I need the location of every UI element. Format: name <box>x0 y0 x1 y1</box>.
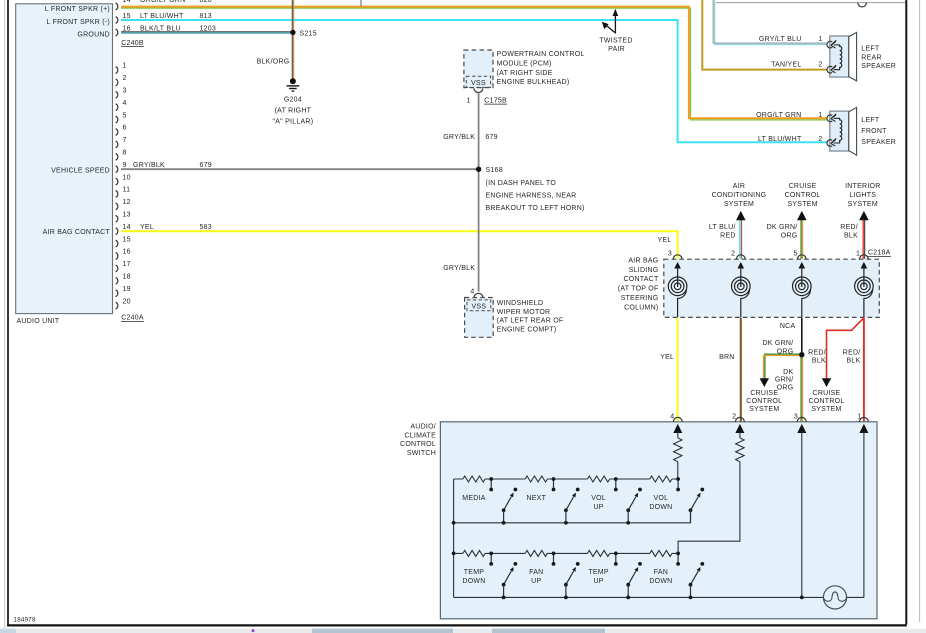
svg-text:CRUISE: CRUISE <box>750 390 778 397</box>
wiper pin arc <box>474 293 483 297</box>
svg-text:1: 1 <box>818 36 822 43</box>
wire RED/BLK branch to cruise control <box>827 318 864 379</box>
top-right cut pin arc <box>858 3 867 7</box>
svg-text:(IN DASH PANEL TO: (IN DASH PANEL TO <box>486 180 557 187</box>
svg-text:FAN: FAN <box>654 569 668 576</box>
bottom scrollbar corner block <box>0 629 16 633</box>
row2 bottom rail <box>454 596 864 598</box>
wire RED/BLK (pin1 up to interior lights system) <box>862 220 864 259</box>
svg-text:L FRONT SPKR (-): L FRONT SPKR (-) <box>46 19 110 26</box>
svg-text:ORG/LT GRN: ORG/LT GRN <box>140 0 185 4</box>
svg-text:RED/: RED/ <box>808 350 826 357</box>
wire BLK/LT BLU (pin16 to S215) dark stripe <box>121 31 292 33</box>
svg-text:POWERTRAIN CONTROL: POWERTRAIN CONTROL <box>497 51 585 58</box>
illumination lamp <box>823 586 846 609</box>
svg-text:(AT RIGHT: (AT RIGHT <box>275 107 312 114</box>
left front speaker pin1 arc <box>827 115 832 122</box>
svg-text:S215: S215 <box>300 30 317 37</box>
svg-text:C175B: C175B <box>484 97 507 104</box>
svg-text:CLIMATE: CLIMATE <box>404 432 436 439</box>
svg-text:DK GRN/: DK GRN/ <box>762 340 793 347</box>
pin2 wire <box>739 431 741 438</box>
svg-text:LEFT: LEFT <box>861 117 880 124</box>
svg-text:15: 15 <box>123 13 131 20</box>
left vertical bus <box>453 479 455 597</box>
svg-text:NEXT: NEXT <box>526 495 546 502</box>
resistor FAN UP <box>525 550 547 556</box>
wire GRY/LT BLU light blue stripe <box>715 0 828 45</box>
svg-text:CRUISE: CRUISE <box>789 183 817 190</box>
svg-text:ORG: ORG <box>777 385 794 392</box>
svg-text:WIPER MOTOR: WIPER MOTOR <box>497 309 551 316</box>
wire BLK/ORG orange stripe <box>293 0 295 80</box>
svg-text:GROUND: GROUND <box>77 31 110 38</box>
svg-text:SYSTEM: SYSTEM <box>811 406 841 413</box>
svg-text:CRUISE: CRUISE <box>813 390 841 397</box>
svg-text:AUDIO/: AUDIO/ <box>410 423 436 430</box>
svg-text:VSS: VSS <box>471 80 486 87</box>
svg-text:CONTACT: CONTACT <box>623 276 659 283</box>
switch FAN DOWN <box>676 553 704 597</box>
page bottom black border <box>7 624 907 626</box>
sliding contact spiral 4 <box>855 262 874 317</box>
svg-text:LT BLU/WHT: LT BLU/WHT <box>758 136 802 143</box>
svg-text:RED: RED <box>720 233 736 240</box>
svg-text:TEMP: TEMP <box>588 569 609 576</box>
left front speaker cone <box>849 107 857 155</box>
svg-text:(AT RIGHT SIDE: (AT RIGHT SIDE <box>497 70 553 77</box>
svg-text:G204: G204 <box>284 96 302 103</box>
svg-text:"A" PILLAR): "A" PILLAR) <box>273 119 314 126</box>
left rear speaker pin2 arc <box>827 66 832 73</box>
resistor VOL UP <box>588 476 610 482</box>
svg-text:2: 2 <box>731 250 735 257</box>
svg-text:CONTROL: CONTROL <box>746 398 782 405</box>
svg-text:GRN/: GRN/ <box>775 377 794 384</box>
svg-text:1: 1 <box>818 112 822 119</box>
ground G204 symbol <box>290 78 296 84</box>
svg-text:ORG/LT GRN: ORG/LT GRN <box>756 112 801 119</box>
splice S168 <box>476 167 481 172</box>
cut-off wire stub at top <box>360 0 362 6</box>
svg-text:9: 9 <box>123 162 127 169</box>
svg-text:TEMP: TEMP <box>464 569 485 576</box>
left rear speaker pin1 arrow <box>831 40 840 48</box>
svg-text:VOL: VOL <box>654 495 669 502</box>
svg-text:TWISTED: TWISTED <box>599 37 632 44</box>
svg-text:COLUMN): COLUMN) <box>624 304 658 311</box>
wire GRY/BLK (pin9 audio to S168) <box>121 168 479 170</box>
svg-text:10: 10 <box>123 174 131 181</box>
svg-text:13: 13 <box>123 212 131 219</box>
air bag top pin arcs <box>673 255 682 259</box>
left front speaker pin2 arrow <box>831 138 840 146</box>
left front speaker pin1 arrow <box>831 114 840 122</box>
svg-text:FRONT: FRONT <box>861 128 887 135</box>
svg-text:16: 16 <box>123 249 131 256</box>
svg-text:YEL: YEL <box>140 224 154 231</box>
audio unit box <box>16 4 113 314</box>
audio/climate control switch box <box>440 422 877 619</box>
switch box top pin arcs <box>673 417 682 421</box>
svg-text:1: 1 <box>467 97 471 104</box>
svg-text:BLK/LT BLU: BLK/LT BLU <box>140 25 181 32</box>
svg-text:4: 4 <box>123 100 127 107</box>
wire ORG/LT GRN green stripe (pin14 to left front speaker pin1) <box>121 8 828 120</box>
svg-text:8: 8 <box>123 150 127 157</box>
svg-text:NCA: NCA <box>780 323 796 330</box>
svg-text:SPEAKER: SPEAKER <box>861 139 896 146</box>
svg-text:3: 3 <box>794 413 798 420</box>
svg-text:ENGINE COMPT): ENGINE COMPT) <box>497 326 557 333</box>
svg-text:TAN/YEL: TAN/YEL <box>771 61 801 68</box>
PCM VSS sub-box <box>466 76 490 87</box>
svg-text:GRY/BLK: GRY/BLK <box>443 134 475 141</box>
bottom scrollbar segment 2 <box>492 629 605 633</box>
svg-text:4: 4 <box>470 289 474 296</box>
svg-text:11: 11 <box>123 187 131 194</box>
left rear speaker cone <box>849 32 857 81</box>
left rear speaker pin1 arc <box>827 41 832 48</box>
wire BLK/LT BLU teal stripe <box>121 32 292 34</box>
svg-text:1203: 1203 <box>200 25 217 32</box>
svg-text:S168: S168 <box>486 167 503 174</box>
svg-text:SPEAKER: SPEAKER <box>861 63 896 70</box>
svg-text:MEDIA: MEDIA <box>462 495 486 502</box>
left front speaker body <box>830 111 849 151</box>
svg-text:6: 6 <box>123 125 127 132</box>
left front speaker coil <box>840 118 842 143</box>
top-right cut box bottom edge <box>716 2 905 4</box>
bottom scrollbar track <box>0 629 926 633</box>
svg-text:19: 19 <box>123 286 131 293</box>
svg-text:UP: UP <box>531 578 541 585</box>
svg-text:GRY/BLK: GRY/BLK <box>133 162 165 169</box>
resistor FAN DOWN <box>650 550 672 556</box>
left rear speaker body <box>830 36 849 77</box>
svg-text:RED/: RED/ <box>840 224 858 231</box>
wire DK GRN/ORG branch to cruise control <box>765 354 802 379</box>
svg-text:(AT LEFT REAR OF: (AT LEFT REAR OF <box>497 318 564 325</box>
svg-text:STEERING: STEERING <box>621 295 659 302</box>
row2 top rail <box>454 552 678 554</box>
pin4 wire and resistor <box>677 431 679 438</box>
page right grey line <box>919 0 921 622</box>
switch VOL UP <box>614 479 642 523</box>
wire ORG/LT GRN orange run <box>121 7 828 119</box>
svg-text:C218A: C218A <box>868 250 891 257</box>
svg-text:GRY/BLK: GRY/BLK <box>443 265 475 272</box>
svg-text:2: 2 <box>123 75 127 82</box>
svg-text:MODULE (PCM): MODULE (PCM) <box>497 61 552 68</box>
svg-text:CONTROL: CONTROL <box>809 398 845 405</box>
row1 top rail <box>454 478 678 480</box>
svg-text:CONDITIONING: CONDITIONING <box>712 192 767 199</box>
twisted pair arrow vertical <box>614 13 616 34</box>
windshield wiper motor box <box>465 298 494 338</box>
junction dot DK GRN/ORG <box>799 352 804 357</box>
svg-text:DOWN: DOWN <box>462 578 485 585</box>
left rear speaker coil <box>840 45 842 70</box>
pin4 entry arrow <box>673 424 682 433</box>
svg-text:C240A: C240A <box>121 315 144 322</box>
switch MEDIA <box>489 479 517 523</box>
sliding contact spiral 1 <box>668 262 687 317</box>
svg-text:C240B: C240B <box>121 40 144 47</box>
bottom scrollbar segment 1 <box>312 629 453 633</box>
svg-text:SYSTEM: SYSTEM <box>848 201 878 208</box>
svg-text:AIR: AIR <box>733 183 745 190</box>
svg-text:BLK: BLK <box>844 233 858 240</box>
svg-text:820: 820 <box>200 0 212 4</box>
svg-text:SWITCH: SWITCH <box>407 450 436 457</box>
wire LT BLU/WHT (pin15 to left front speaker pin2) <box>121 20 828 142</box>
splice S215 <box>290 30 295 35</box>
svg-text:VSS: VSS <box>472 303 487 310</box>
svg-text:SYSTEM: SYSTEM <box>724 201 754 208</box>
svg-text:CONTROL: CONTROL <box>400 441 436 448</box>
svg-text:1: 1 <box>123 63 127 70</box>
svg-text:BLK: BLK <box>847 358 861 365</box>
svg-text:BRN: BRN <box>719 354 735 361</box>
wire LT BLU/RED (pin2 up to A/C system) <box>739 220 741 259</box>
svg-text:PAIR: PAIR <box>608 46 625 53</box>
wire TAN/YEL vertical (top to left rear speaker pin2) <box>702 0 827 70</box>
wire DK GRN/ORG (pin5 up to cruise control system) <box>800 220 802 259</box>
resistor under pin2 <box>736 438 744 462</box>
svg-text:(AT TOP OF: (AT TOP OF <box>618 286 659 293</box>
svg-text:BLK/ORG: BLK/ORG <box>257 58 290 65</box>
svg-text:5: 5 <box>794 250 798 257</box>
svg-text:VEHICLE SPEED: VEHICLE SPEED <box>51 167 110 174</box>
svg-text:3: 3 <box>123 88 127 95</box>
C240A pin numbers 1-20 <box>123 63 131 306</box>
svg-text:SYSTEM: SYSTEM <box>749 406 779 413</box>
svg-text:20: 20 <box>123 298 131 305</box>
svg-text:GRY/LT BLU: GRY/LT BLU <box>759 36 802 43</box>
wire BLK/ORG vertical (to G204) black stripe <box>291 0 293 80</box>
svg-text:DOWN: DOWN <box>649 504 672 511</box>
svg-text:ENGINE HARNESS, NEAR: ENGINE HARNESS, NEAR <box>486 193 577 200</box>
wire YEL (pin14 audio to air bag contact pin3) <box>121 231 678 258</box>
svg-text:7: 7 <box>123 137 127 144</box>
svg-text:LEFT: LEFT <box>861 45 880 52</box>
row1 bottom rail <box>454 510 691 523</box>
pin1 entry arrow <box>859 424 868 433</box>
svg-text:ORG: ORG <box>777 348 794 355</box>
twisted pair arrow diagonal <box>606 25 615 32</box>
resistor VOL DOWN <box>650 476 672 482</box>
svg-text:18: 18 <box>123 274 131 281</box>
svg-text:12: 12 <box>123 199 131 206</box>
bottom purple dot <box>252 629 255 632</box>
svg-text:AIR BAG CONTACT: AIR BAG CONTACT <box>43 229 111 236</box>
svg-text:INTERIOR: INTERIOR <box>845 183 880 190</box>
switch VOL DOWN <box>676 479 704 523</box>
svg-text:5: 5 <box>123 112 127 119</box>
C240B pin arc row14 <box>116 3 118 10</box>
pin2 entry arrow <box>735 424 744 433</box>
row1 junction dots <box>452 477 804 599</box>
C240A pin arcs 1-20 <box>116 67 118 309</box>
svg-text:SYSTEM: SYSTEM <box>787 201 817 208</box>
svg-text:DK: DK <box>783 369 793 376</box>
resistor under pin4 <box>674 438 682 462</box>
sliding contact spiral 3 <box>793 262 812 317</box>
svg-text:2: 2 <box>818 61 822 68</box>
svg-text:LIGHTS: LIGHTS <box>849 192 876 199</box>
svg-text:2: 2 <box>818 136 822 143</box>
page left black border <box>7 0 9 627</box>
switch TEMP UP <box>614 553 642 597</box>
wire RED/BLK main (contact pin1 down to switch pin1) <box>863 318 865 422</box>
svg-text:1: 1 <box>856 250 860 257</box>
svg-text:REAR: REAR <box>861 54 881 61</box>
wiper VSS sub-box <box>467 300 491 311</box>
switch FAN UP <box>552 553 580 597</box>
wire NCA (contact pin3 down to junction) <box>801 318 803 355</box>
sliding contact spiral 2 <box>732 262 751 317</box>
left rear speaker pin2 arrow <box>831 65 840 73</box>
svg-text:813: 813 <box>200 13 212 20</box>
svg-text:ORG: ORG <box>781 233 798 240</box>
svg-text:14: 14 <box>123 0 131 4</box>
svg-text:17: 17 <box>123 261 131 268</box>
pin3 wire <box>801 431 803 597</box>
switch NEXT <box>552 479 580 523</box>
page left outer grey line <box>4 0 6 628</box>
PCM pin arc <box>474 88 483 92</box>
svg-text:VOL: VOL <box>591 495 606 502</box>
svg-text:583: 583 <box>200 224 212 231</box>
svg-text:CONTROL: CONTROL <box>785 192 821 199</box>
svg-text:UP: UP <box>593 578 603 585</box>
svg-text:AUDIO UNIT: AUDIO UNIT <box>17 318 60 325</box>
svg-text:679: 679 <box>485 134 497 141</box>
svg-text:YEL: YEL <box>660 354 674 361</box>
svg-text:ENGINE BULKHEAD): ENGINE BULKHEAD) <box>497 79 570 86</box>
svg-text:DOWN: DOWN <box>649 578 672 585</box>
svg-text:WINDSHIELD: WINDSHIELD <box>497 300 543 307</box>
wire GRY/BLK 679 (PCM to S168 to wiper motor) <box>478 92 480 291</box>
resistor TEMP DOWN <box>463 550 485 556</box>
svg-text:BREAKOUT TO LEFT HORN): BREAKOUT TO LEFT HORN) <box>486 205 585 212</box>
C240B pin arc row15 <box>116 17 118 24</box>
svg-text:679: 679 <box>200 162 212 169</box>
switch TEMP DOWN <box>489 553 517 597</box>
wire DK GRN/ORG main (junction down to switch pin3) <box>800 355 802 422</box>
svg-text:3: 3 <box>668 250 672 257</box>
resistor NEXT <box>525 476 547 482</box>
pin3 entry arrow <box>797 424 806 433</box>
svg-text:YEL: YEL <box>658 237 672 244</box>
wire GRY/LT BLU grey stripe (top to left rear speaker pin1) <box>713 0 827 43</box>
powertrain control module box <box>464 50 493 88</box>
svg-text:LT BLU/: LT BLU/ <box>709 224 736 231</box>
svg-text:L FRONT SPKR (+): L FRONT SPKR (+) <box>45 6 110 13</box>
left front speaker pin2 arc <box>827 140 832 147</box>
svg-text:AIR BAG: AIR BAG <box>628 257 658 264</box>
resistor MEDIA <box>463 476 485 482</box>
svg-text:15: 15 <box>123 236 131 243</box>
svg-text:DK GRN/: DK GRN/ <box>767 224 798 231</box>
C240B pin arc row16 <box>116 29 118 36</box>
resistor TEMP UP <box>588 550 610 556</box>
svg-text:FAN: FAN <box>529 569 543 576</box>
svg-text:LT BLU/WHT: LT BLU/WHT <box>140 13 184 20</box>
svg-text:RED/: RED/ <box>843 350 861 357</box>
svg-text:14: 14 <box>123 224 131 231</box>
svg-text:UP: UP <box>593 504 603 511</box>
wire YEL (contact pin4 down to switch) <box>677 318 679 422</box>
page right black border <box>905 0 907 625</box>
pin1 wire <box>863 431 865 597</box>
svg-text:BLK: BLK <box>812 358 826 365</box>
svg-text:SLIDING: SLIDING <box>629 267 659 274</box>
svg-text:184978: 184978 <box>14 616 36 623</box>
wire BRN (contact pin2 down to switch) <box>740 318 742 422</box>
air bag sliding contact box <box>664 259 880 317</box>
svg-text:16: 16 <box>123 25 131 32</box>
